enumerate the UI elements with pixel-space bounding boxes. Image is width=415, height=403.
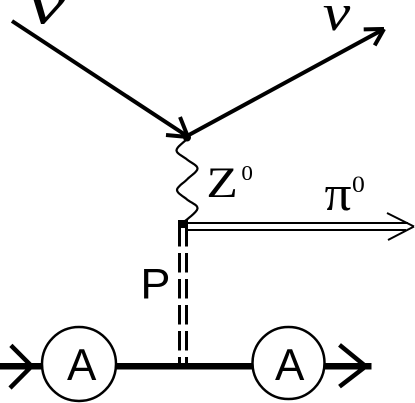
svg-text:ν: ν xyxy=(27,0,67,37)
svg-text:Z: Z xyxy=(206,160,238,207)
svg-text:0: 0 xyxy=(352,173,365,198)
svg-text:π: π xyxy=(325,167,352,222)
svg-text:A: A xyxy=(67,341,97,390)
svg-text:0: 0 xyxy=(241,161,253,185)
svg-text:ν: ν xyxy=(323,0,351,42)
svg-text:P: P xyxy=(140,260,170,308)
svg-text:A: A xyxy=(275,341,305,390)
